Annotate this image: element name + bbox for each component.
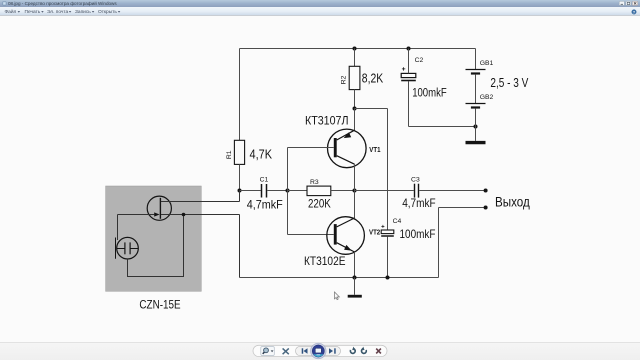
- node R2 top: [353, 47, 357, 51]
- wire C4 bottom lead: [387, 237, 389, 278]
- node collectors/R3/C3: [353, 189, 357, 193]
- wire C2 bottom lead: [408, 81, 410, 127]
- close button: [632, 1, 637, 5]
- zoom button: [261, 347, 275, 356]
- svg-text:GB2: GB2: [480, 94, 494, 101]
- node R1/C1/mic-drain: [238, 189, 242, 193]
- resistor R3: [307, 179, 331, 211]
- wire C4 column upper: [387, 109, 389, 231]
- transistor VT2 KT3102E (NPN): [304, 217, 380, 268]
- menu: Файл: [5, 8, 21, 15]
- next icon: [329, 348, 336, 353]
- wire base column: [287, 148, 289, 235]
- wire top rail: [240, 48, 476, 50]
- svg-text:220K: 220K: [308, 197, 331, 211]
- wire C3 to output: [419, 190, 484, 192]
- wire battery to ground: [475, 109, 477, 141]
- svg-text:Печать: Печать: [25, 9, 41, 15]
- FET inside mic: [147, 196, 171, 220]
- wire FET source: [161, 215, 240, 278]
- menu: Открыть: [98, 9, 120, 15]
- svg-text:Выход: Выход: [495, 194, 530, 209]
- mic capsule: [116, 237, 139, 259]
- svg-text:4,7K: 4,7K: [250, 148, 273, 162]
- capacitor C2: [401, 57, 447, 99]
- ground main: [348, 295, 362, 298]
- svg-text:Открыть: Открыть: [98, 9, 117, 15]
- maximize button: [626, 1, 631, 5]
- svg-text:C1: C1: [260, 176, 269, 183]
- wire emitter branch to C4 column: [355, 108, 388, 110]
- svg-text:VT1: VT1: [369, 145, 380, 154]
- wire R1 bottom lead: [239, 164, 241, 190]
- node emitter/R2/C4-branch: [353, 107, 357, 111]
- resistor R2: [341, 66, 384, 89]
- svg-text:КТ3107Л: КТ3107Л: [305, 114, 349, 128]
- svg-text:КТ3102Е: КТ3102Е: [304, 254, 346, 268]
- nav pill: [296, 346, 341, 355]
- svg-text:100mkF: 100mkF: [400, 227, 436, 241]
- menu: Эл. почта: [47, 9, 71, 15]
- wire to C1: [240, 190, 261, 192]
- svg-text:2,5 - 3 V: 2,5 - 3 V: [490, 76, 528, 90]
- prev icon: [302, 348, 308, 353]
- node base/C1/R3: [286, 189, 290, 193]
- wire lower output: [439, 207, 485, 209]
- rotate cw: [361, 347, 366, 354]
- window icon: [3, 2, 7, 6]
- wire battery top lead: [475, 49, 477, 70]
- node battery bottom: [474, 125, 478, 129]
- svg-text:C4: C4: [393, 218, 402, 225]
- menu: Печать: [25, 9, 44, 15]
- wire bottom rail: [240, 277, 439, 279]
- svg-text:100mkF: 100mkF: [412, 88, 447, 100]
- wire C2 top lead: [408, 49, 410, 74]
- wire FET drain: [161, 191, 240, 202]
- fit icon: [283, 348, 289, 354]
- ground battery: [466, 141, 486, 144]
- toolbar pill: [253, 345, 387, 356]
- capacitor C3: [402, 177, 435, 211]
- svg-text:GB1: GB1: [480, 60, 494, 67]
- output terminal upper: [484, 189, 488, 193]
- wire node to R3: [288, 190, 308, 192]
- svg-text:Файл: Файл: [5, 8, 17, 15]
- battery cell GB2: [466, 94, 494, 108]
- wire C1 to base node: [267, 190, 287, 192]
- svg-text:R3: R3: [310, 179, 319, 186]
- svg-text:VT2: VT2: [369, 227, 380, 236]
- svg-text:C3: C3: [411, 177, 420, 184]
- svg-text:C2: C2: [415, 57, 424, 64]
- wire ground stub: [354, 278, 356, 295]
- svg-text:R1: R1: [226, 150, 233, 159]
- transistor VT1 KT3107L (PNP): [305, 114, 381, 168]
- wire R3 to collector node: [331, 190, 355, 192]
- microphone module box CZN-15E: [106, 186, 202, 291]
- wire VT1 base: [288, 147, 334, 149]
- node mic source junction: [182, 213, 186, 217]
- play button: [311, 343, 327, 359]
- wire between cells: [475, 75, 477, 104]
- rotate ccw: [350, 347, 355, 354]
- battery cell GB1: [466, 60, 494, 74]
- mouse cursor: [335, 292, 340, 300]
- delete x: [376, 349, 381, 354]
- minimize button: [619, 1, 624, 5]
- wire VT2 base: [288, 234, 334, 236]
- menu: Запись: [75, 9, 94, 15]
- node C4 bottom: [386, 276, 390, 280]
- wire R1 top lead: [239, 49, 241, 141]
- output terminal lower: [484, 206, 488, 210]
- wire VT2 collector vertical: [354, 191, 356, 219]
- wire right riser: [438, 208, 440, 278]
- capacitor C1: [247, 176, 283, 211]
- svg-text:R2: R2: [341, 75, 348, 84]
- wire mic inner loop: [128, 215, 184, 277]
- wire node to C3: [355, 190, 414, 192]
- resistor R1: [226, 140, 273, 164]
- node emitter/ground: [353, 276, 357, 280]
- wire R2 top lead: [354, 49, 356, 67]
- svg-text:08.jpg - Средство просмотра фо: 08.jpg - Средство просмотра фотографий W…: [8, 0, 117, 6]
- wire VT1 collector vertical: [354, 164, 356, 190]
- svg-text:8,2K: 8,2K: [362, 71, 384, 85]
- wire VT1 emitter vertical: [354, 109, 356, 131]
- svg-text:Эл. почта: Эл. почта: [47, 9, 69, 15]
- svg-text:4,7mkF: 4,7mkF: [402, 196, 435, 210]
- svg-text:4,7mkF: 4,7mkF: [247, 198, 283, 212]
- wire mic gate: [118, 215, 155, 241]
- wire R2 bottom lead: [354, 90, 356, 109]
- help icon: [632, 10, 637, 15]
- wire VT2 emitter vertical: [354, 252, 356, 278]
- wire C2 to battery column: [409, 126, 476, 128]
- node C2 top: [407, 47, 411, 51]
- svg-text:Запись: Запись: [75, 9, 91, 15]
- svg-text:CZN-15E: CZN-15E: [139, 297, 180, 311]
- capacitor C4: [381, 218, 435, 241]
